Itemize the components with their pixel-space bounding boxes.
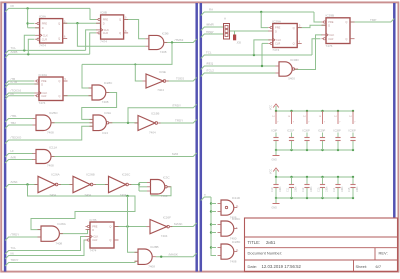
power pin IC30P <box>349 110 357 151</box>
svg-text:TRDY: TRDY <box>175 119 183 123</box>
wire RA to IC29A PRE <box>261 12 268 28</box>
flip-flop IC10A (7474) <box>35 73 68 105</box>
svg-text:D: D <box>41 82 43 86</box>
wire IC28A out to IC7B D <box>59 230 90 234</box>
svg-text:Q: Q <box>345 20 347 24</box>
wire down to IC9E input <box>135 64 142 81</box>
nand-gate IC3C (7410) <box>147 176 171 199</box>
inverter IC26A (7404) <box>35 173 61 197</box>
capacitor C14 <box>333 176 344 199</box>
svg-text:7408: 7408 <box>47 164 54 168</box>
svg-text:12.03.2019 17:56:52: 12.03.2019 17:56:52 <box>262 264 302 269</box>
wire net /REQ <box>201 66 276 70</box>
svg-text:CLK: CLK <box>93 235 98 239</box>
flip-flop IC29B (7476) <box>322 14 355 48</box>
svg-text:7408: 7408 <box>148 265 155 269</box>
capacitor C11 <box>287 176 298 199</box>
svg-text:5400: 5400 <box>288 76 295 80</box>
svg-text:JGB: JGB <box>237 43 242 45</box>
svg-text:/MASK: /MASK <box>169 252 178 256</box>
node IC8A Q junction <box>76 22 78 24</box>
and-gate IC28A (7408) <box>38 222 66 245</box>
svg-text:IC30P: IC30P <box>349 129 356 133</box>
wire VCC rail group2 <box>276 176 353 178</box>
svg-text:CLR: CLR <box>103 31 108 35</box>
svg-text:IC7B: IC7B <box>90 218 97 222</box>
svg-text:IC28A: IC28A <box>57 222 65 226</box>
wire IC29A Q to IC29B D <box>297 25 326 27</box>
wire IC29B Q to bus TMP <box>350 19 394 23</box>
wire IC9E output TOES <box>167 78 197 82</box>
title block frame <box>245 218 398 272</box>
svg-text:IC29P: IC29P <box>318 129 325 133</box>
capacitor bypass IC26P <box>304 133 309 151</box>
svg-text:TITLE:: TITLE: <box>248 240 261 245</box>
inverter IC26F (7404) <box>147 216 173 238</box>
svg-text:/MR5: /MR5 <box>11 50 18 54</box>
bus right page right <box>393 3 396 218</box>
inverter IC19B (7404) <box>135 112 161 135</box>
svg-text:Q: Q <box>58 21 60 25</box>
wire net HI <box>5 154 33 158</box>
svg-text:IC8A: IC8A <box>39 14 47 18</box>
wire I/8 branch to IC8A <box>27 8 29 27</box>
wire IC8B Q to IC9B in1 <box>124 20 146 39</box>
svg-text:TB2: TB2 <box>11 121 17 125</box>
svg-text:7408: 7408 <box>55 242 62 246</box>
svg-text:6/7: 6/7 <box>376 264 382 269</box>
svg-text:/MR: /MR <box>11 155 16 159</box>
wire net /MR5 <box>5 54 90 58</box>
wire to IC8A PRE <box>28 22 35 24</box>
capacitor bypass IC28P <box>335 133 340 151</box>
svg-text:IC30D: IC30D <box>290 58 299 62</box>
wire IC8B CLR feed <box>90 33 96 54</box>
svg-text:D: D <box>42 26 44 30</box>
and-gate IC25D (7408) <box>33 111 59 135</box>
wire IC11A out long net MA5 <box>51 153 197 157</box>
svg-text:7408: 7408 <box>230 259 237 263</box>
svg-text:7404: 7404 <box>84 193 91 197</box>
svg-text:100n: 100n <box>310 186 313 192</box>
wire GND rail group2 <box>276 197 353 199</box>
svg-text:IC11D: IC11D <box>232 196 241 200</box>
svg-text:PRE: PRE <box>42 22 48 26</box>
wire net /TCK3.6 <box>5 93 34 97</box>
and-gate IC30C (7400) <box>218 217 242 240</box>
svg-text:2и51: 2и51 <box>266 240 276 245</box>
capacitor C12 <box>302 176 313 199</box>
node IC8A PRE tap <box>26 22 28 24</box>
power pin IC8P <box>272 110 280 151</box>
capacitor bypass IC21P <box>289 133 294 151</box>
wire IC29A CLR from REQ net <box>262 42 268 44</box>
svg-text:IC21P: IC21P <box>287 129 294 133</box>
svg-text:D: D <box>103 22 105 26</box>
svg-text:C14: C14 <box>333 187 336 192</box>
svg-text:/MSK: /MSK <box>11 180 18 184</box>
capacitor bypass IC8P <box>273 133 278 151</box>
wire cap rail group1 <box>276 149 353 151</box>
svg-text:IC25D: IC25D <box>49 111 58 115</box>
wire to IC8A D <box>28 27 40 29</box>
wire net /MMR <box>201 27 224 31</box>
node MR5 tap IC8A CLR <box>27 53 29 55</box>
wire /TMS3 vertical <box>82 43 172 65</box>
wire net RA top <box>201 12 314 16</box>
svg-text:C12: C12 <box>302 187 305 192</box>
node TCL tap IC8A CLK <box>23 49 25 51</box>
svg-text:IC26F: IC26F <box>163 216 171 220</box>
svg-text:7408: 7408 <box>102 100 109 104</box>
wire VCC rail group1 <box>276 110 353 112</box>
svg-text:IC29A: IC29A <box>272 19 282 23</box>
nand-gate IC30D (5400) <box>276 58 300 80</box>
svg-text:VCC: VCC <box>270 169 273 174</box>
svg-text:IC28D: IC28D <box>232 240 241 244</box>
svg-text:ПРДУ: ПРДУ <box>206 30 214 34</box>
and-gate IC28C (7408) <box>89 81 114 104</box>
resistor R1 <box>233 35 241 45</box>
node gate feeder tap <box>210 210 212 212</box>
svg-text:C15: C15 <box>348 187 351 192</box>
wire IC26C out to IC3C node <box>130 184 139 186</box>
svg-text:Q: Q <box>58 79 60 83</box>
flip-flop IC8B (7474) <box>96 11 128 44</box>
svg-text:Q: Q <box>293 26 295 30</box>
wire net I/6 <box>5 96 34 100</box>
wire TCL right to IC29B CLR <box>312 39 321 55</box>
svg-text:/TMS3: /TMS3 <box>175 38 184 42</box>
title block texts <box>248 240 388 269</box>
svg-text:7474: 7474 <box>39 43 46 47</box>
flip-flop IC29A (7474) <box>268 19 301 52</box>
svg-text:CLR: CLR <box>41 94 46 98</box>
wire IC9B out to bus /TMS3 <box>164 39 197 43</box>
wire net /MSK <box>5 185 37 189</box>
svg-text:Sheet:: Sheet: <box>356 264 368 269</box>
svg-text:IC9E: IC9E <box>159 70 166 74</box>
wire /TRDY up and to bus <box>128 104 197 123</box>
svg-text:C13: C13 <box>318 187 321 192</box>
wire gate feeder vertical <box>211 197 216 256</box>
wire IC8A CLK feed <box>24 35 35 50</box>
svg-text:IC26P: IC26P <box>303 129 310 133</box>
svg-text:D13: D13 <box>102 131 108 135</box>
wire Q down to IC9B in2 <box>77 23 145 46</box>
svg-text:IC28B: IC28B <box>150 245 158 249</box>
svg-text:IC26B: IC26B <box>86 173 94 177</box>
svg-text:7476: 7476 <box>326 44 333 48</box>
svg-text:MASK: MASK <box>174 222 183 226</box>
wire IC3C input fan <box>138 183 140 192</box>
capacitor C10 <box>271 176 282 199</box>
wire IC8A Q to IC8B D <box>63 22 101 24</box>
wire IC25D out to IC9A in2 <box>51 122 93 124</box>
node IC9E tap <box>134 63 136 65</box>
wire net /TB1 <box>5 119 32 123</box>
node gate feeder tap <box>210 231 212 233</box>
inverter IC9E (7404) <box>143 70 169 92</box>
svg-text:C11: C11 <box>287 187 290 192</box>
svg-text:A: A <box>224 17 226 21</box>
svg-text:CLR: CLR <box>42 37 47 41</box>
capacitor C15 <box>348 176 359 199</box>
svg-text:/TRDY: /TRDY <box>172 104 181 108</box>
and-gate IC9B (7408) <box>145 32 168 54</box>
svg-text:100n: 100n <box>295 186 298 192</box>
node gate feeder tap <box>210 223 212 225</box>
svg-text:D: D <box>92 228 94 232</box>
svg-text:RA: RA <box>209 8 213 12</box>
svg-text:7408: 7408 <box>47 131 54 135</box>
wire net TCL right page <box>201 55 312 59</box>
wire I/8 down to IC8B PRE <box>90 8 96 19</box>
capacitor bypass IC29P <box>320 133 325 151</box>
svg-text:Q: Q <box>119 31 121 35</box>
svg-text:TMP: TMP <box>370 18 376 22</box>
svg-text:PRE: PRE <box>275 26 281 30</box>
wire IC28C out loop to IC9A in1 <box>82 93 117 120</box>
svg-text:IC9A: IC9A <box>104 111 111 115</box>
svg-text:I/8: I/8 <box>11 4 15 8</box>
svg-text:CLK: CLK <box>43 33 48 37</box>
bus left page left <box>4 3 7 272</box>
svg-text:TOES: TOES <box>176 77 184 81</box>
svg-text:7410: 7410 <box>161 194 168 198</box>
svg-text:100n: 100n <box>326 186 329 192</box>
svg-text:/TCL2: /TCL2 <box>206 69 214 73</box>
svg-text:IC28C: IC28C <box>104 81 113 85</box>
svg-text:IC29B: IC29B <box>326 14 335 18</box>
nand-gate IC9A (7410) <box>90 111 113 135</box>
bus right page left <box>200 3 203 272</box>
svg-text:IC8B: IC8B <box>100 11 107 15</box>
wire TCL up to IC29A CLK <box>254 40 271 55</box>
svg-text:100n: 100n <box>341 186 344 192</box>
svg-text:REV:: REV: <box>379 250 388 255</box>
wire net TB2 <box>5 125 32 129</box>
wire net PRDU <box>201 34 224 38</box>
wire down to IC28C in1 <box>82 64 92 88</box>
svg-text:Q: Q <box>293 42 295 46</box>
svg-text:7404: 7404 <box>149 131 156 135</box>
svg-text:/REQ: /REQ <box>206 62 214 66</box>
svg-text:7404: 7404 <box>157 88 164 92</box>
power pin IC26P <box>303 110 311 151</box>
svg-text:TCL: TCL <box>206 51 212 55</box>
wire IC26B-IC26C link <box>95 184 109 186</box>
wire IC8A CLR feed <box>28 39 34 54</box>
wire IC10A Qn to IC28C in2 <box>63 95 92 97</box>
svg-text:TRDY: TRDY <box>11 258 19 262</box>
wire /MASK out <box>156 253 197 257</box>
ground symbol group2 <box>272 198 280 210</box>
capacitor bypass IC30P <box>350 133 355 151</box>
svg-text:C10: C10 <box>271 187 274 192</box>
power VCC symbol group2 <box>270 168 279 177</box>
bus left page right <box>195 3 198 272</box>
svg-text:/TB1: /TB1 <box>11 114 17 118</box>
node staircase tap <box>126 195 128 197</box>
svg-text:PRE: PRE <box>328 20 334 24</box>
svg-text:IC9B: IC9B <box>162 32 169 36</box>
ground symbol group1 <box>272 150 280 162</box>
svg-text:CLR: CLR <box>92 238 97 242</box>
svg-text:GND: GND <box>272 159 278 162</box>
wire IC7B Q node <box>114 226 147 228</box>
svg-text:Q: Q <box>109 225 111 229</box>
and-gate IC28D (7408) <box>218 240 242 263</box>
svg-text:MA5: MA5 <box>172 152 179 156</box>
wire net I/6 to IC7B CLR <box>5 240 85 259</box>
wire net /CTB <box>5 84 39 88</box>
connector JP1 <box>224 17 230 40</box>
svg-text:Q: Q <box>109 238 111 242</box>
node gate feeder tap <box>210 246 212 248</box>
svg-text:Q: Q <box>119 18 121 22</box>
power VCC symbol group1 <box>270 104 279 111</box>
svg-text:Date:: Date: <box>248 264 258 269</box>
flip-flop IC7B (7474) <box>86 218 119 253</box>
svg-text:IC26C: IC26C <box>122 173 131 177</box>
svg-text:IC30C: IC30C <box>232 217 241 221</box>
and-gate IC11A (7408) <box>33 146 58 168</box>
wire IC3C out loop <box>151 187 172 196</box>
svg-text:TCL: TCL <box>11 246 17 250</box>
svg-text:CLR: CLR <box>328 37 333 41</box>
svg-text:7404: 7404 <box>161 234 168 238</box>
svg-text:100n: 100n <box>279 186 282 192</box>
wire Q node down to IC28B in1 <box>128 227 139 253</box>
svg-text:/MMR: /MMR <box>206 23 214 27</box>
svg-text:7474: 7474 <box>90 248 97 252</box>
svg-text:IC11A: IC11A <box>49 146 57 150</box>
svg-text:HI: HI <box>11 149 14 153</box>
svg-text:Q: Q <box>58 94 60 98</box>
svg-text:CLK: CLK <box>276 38 281 42</box>
svg-text:D: D <box>275 29 277 33</box>
inverter IC26B (7404) <box>70 173 96 197</box>
svg-text:Q: Q <box>345 37 347 41</box>
svg-text:IC19B: IC19B <box>151 112 159 116</box>
svg-text:/TRDY: /TRDY <box>11 233 20 237</box>
power pin IC21P <box>287 110 295 151</box>
wire net /TRDY to IC28A <box>5 237 41 241</box>
wire net /TCL2 <box>201 73 276 77</box>
svg-text:100n: 100n <box>356 186 359 192</box>
capacitor C13 <box>318 176 329 199</box>
node gate feeder tap <box>210 202 212 204</box>
flip-flop IC8A (7474) <box>35 14 67 47</box>
wire IC8B CLK feed <box>86 30 97 51</box>
svg-text:/CTB: /CTB <box>11 80 18 84</box>
svg-text:7474: 7474 <box>39 101 46 105</box>
svg-text:Q: Q <box>58 37 60 41</box>
wire net I/8 top <box>5 8 90 12</box>
svg-text:7408: 7408 <box>160 50 167 54</box>
svg-text:D: D <box>328 24 330 28</box>
wire Q node vertical up <box>127 196 129 227</box>
svg-text:7404: 7404 <box>49 193 56 197</box>
svg-text:7404: 7404 <box>120 193 127 197</box>
svg-text:IC3C: IC3C <box>163 176 171 180</box>
svg-text:VCC: VCC <box>270 105 273 110</box>
wire net /MR <box>5 160 33 164</box>
wire net /TECKO to IC9A in3 <box>5 126 93 143</box>
wire MASK out <box>171 223 197 227</box>
wire IC9A out node <box>109 122 138 124</box>
svg-text:CLK: CLK <box>329 33 334 37</box>
inverter IC26C (7404) <box>105 173 131 197</box>
wire IC26A-IC26B link <box>59 184 73 186</box>
svg-text:7474: 7474 <box>272 48 279 52</box>
wire IC30D out to IC29B CLK <box>295 35 322 70</box>
svg-text:I/6: I/6 <box>11 251 15 255</box>
svg-text:/TECKO: /TECKO <box>11 136 23 140</box>
svg-text:PRE: PRE <box>103 18 109 22</box>
wire net TCL <box>5 50 86 54</box>
wire resistor stub <box>234 31 236 35</box>
wire net /TB <box>5 81 34 85</box>
svg-text:GND: GND <box>272 207 278 210</box>
node I/8 junction <box>26 7 28 9</box>
power pin IC29P <box>318 110 326 151</box>
gate inner dot <box>225 206 227 208</box>
svg-text:7474: 7474 <box>100 40 107 44</box>
wire net TCL to IC7B CLK <box>5 237 85 255</box>
wire RA to IC29B PRE <box>314 12 322 22</box>
svg-text:IC28P: IC28P <box>334 129 341 133</box>
svg-text:IC8P: IC8P <box>272 129 278 133</box>
wire connector to IC29A D <box>230 30 269 32</box>
wire net a bottom <box>201 197 211 201</box>
svg-text:CLR: CLR <box>275 42 280 46</box>
power pin IC28P <box>334 110 342 151</box>
and-gate IC11D (7408) <box>218 196 241 219</box>
and-gate IC28B (7408) <box>135 245 159 268</box>
wire net TRDY bottom <box>5 261 138 266</box>
svg-text:Document Number:: Document Number: <box>248 250 283 255</box>
svg-text:IC10A: IC10A <box>39 73 49 77</box>
svg-text:I/6: I/6 <box>11 92 15 96</box>
svg-text:IC26A: IC26A <box>51 173 59 177</box>
wire /MSK staircase <box>28 185 136 230</box>
wire TRDY output to bus <box>159 120 197 124</box>
